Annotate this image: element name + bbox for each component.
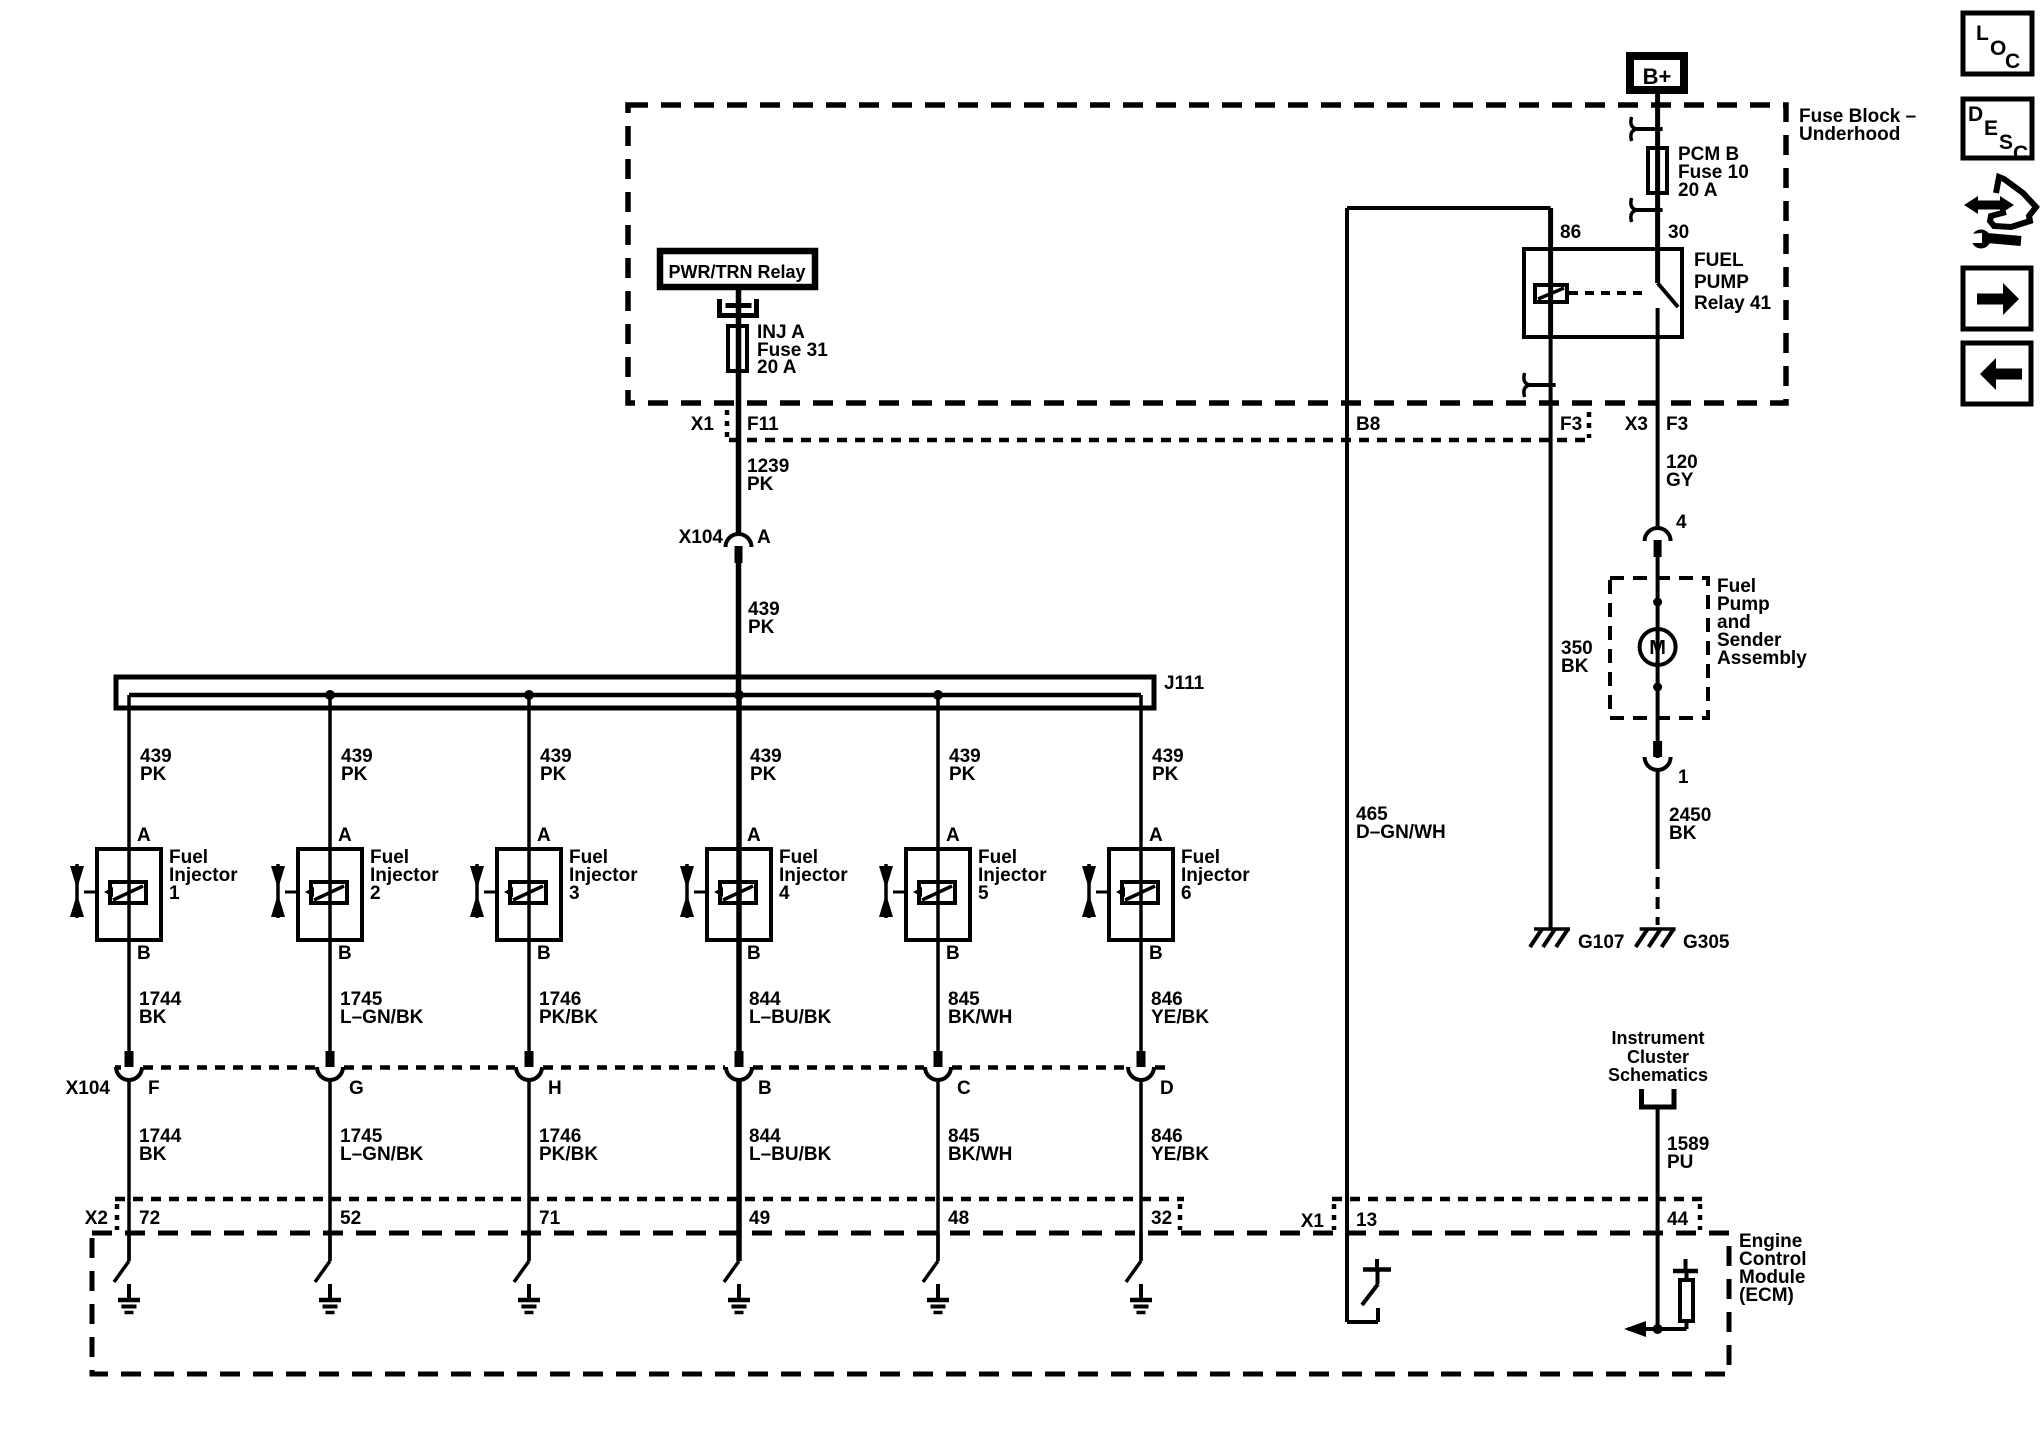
svg-text:6: 6: [1181, 883, 1192, 904]
svg-text:D: D: [1968, 103, 1983, 126]
svg-text:(ECM): (ECM): [1739, 1285, 1794, 1306]
svg-text:B: B: [338, 943, 352, 964]
svg-text:PU: PU: [1667, 1152, 1693, 1173]
svg-text:Instrument: Instrument: [1611, 1028, 1704, 1048]
svg-text:PK: PK: [540, 764, 567, 785]
svg-text:71: 71: [539, 1208, 561, 1229]
svg-text:X3: X3: [1625, 414, 1648, 435]
svg-text:O: O: [1990, 37, 2006, 60]
svg-text:B: B: [137, 943, 151, 964]
svg-text:13: 13: [1356, 1210, 1377, 1231]
svg-text:Schematics: Schematics: [1608, 1065, 1708, 1085]
svg-text:B: B: [946, 943, 960, 964]
svg-text:A: A: [137, 825, 151, 846]
svg-text:3: 3: [569, 883, 580, 904]
svg-text:X1: X1: [691, 414, 715, 435]
svg-text:L–GN/BK: L–GN/BK: [340, 1144, 424, 1165]
svg-text:S: S: [1999, 131, 2013, 154]
svg-text:G107: G107: [1578, 932, 1624, 953]
svg-text:F: F: [148, 1078, 160, 1099]
svg-text:C: C: [2013, 142, 2028, 165]
svg-text:B: B: [1149, 943, 1163, 964]
svg-text:BK: BK: [1669, 823, 1697, 844]
svg-text:52: 52: [340, 1208, 361, 1229]
svg-text:FUEL: FUEL: [1694, 250, 1744, 271]
svg-text:PK: PK: [341, 764, 368, 785]
svg-text:C: C: [957, 1078, 971, 1099]
svg-text:4: 4: [1676, 512, 1687, 533]
svg-text:X104: X104: [679, 527, 724, 548]
svg-text:Underhood: Underhood: [1799, 124, 1900, 145]
svg-text:D: D: [1160, 1078, 1174, 1099]
svg-text:PK/BK: PK/BK: [539, 1007, 598, 1028]
svg-text:B: B: [537, 943, 551, 964]
svg-text:GY: GY: [1666, 470, 1694, 491]
svg-text:H: H: [548, 1078, 562, 1099]
svg-text:72: 72: [139, 1208, 160, 1229]
svg-text:PK: PK: [140, 764, 167, 785]
svg-text:G305: G305: [1683, 932, 1730, 953]
svg-text:YE/BK: YE/BK: [1151, 1144, 1209, 1165]
svg-text:D–GN/WH: D–GN/WH: [1356, 822, 1446, 843]
svg-text:A: A: [946, 825, 960, 846]
svg-text:PK: PK: [748, 617, 775, 638]
svg-text:PK: PK: [750, 764, 777, 785]
svg-text:BK/WH: BK/WH: [948, 1144, 1012, 1165]
svg-text:B: B: [747, 943, 761, 964]
svg-text:X104: X104: [66, 1078, 111, 1099]
svg-text:PK: PK: [949, 764, 976, 785]
svg-text:E: E: [1984, 117, 1998, 140]
svg-text:1: 1: [169, 883, 180, 904]
svg-text:X2: X2: [85, 1208, 108, 1229]
svg-text:F3: F3: [1560, 414, 1582, 435]
svg-text:B+: B+: [1643, 64, 1672, 89]
svg-text:32: 32: [1151, 1208, 1172, 1229]
svg-text:A: A: [537, 825, 551, 846]
svg-text:49: 49: [749, 1208, 770, 1229]
svg-text:PK: PK: [747, 474, 774, 495]
svg-text:20 A: 20 A: [757, 357, 797, 378]
svg-text:44: 44: [1667, 1209, 1689, 1230]
svg-text:BK: BK: [139, 1144, 167, 1165]
svg-text:5: 5: [978, 883, 989, 904]
svg-text:30: 30: [1668, 222, 1689, 243]
svg-text:Assembly: Assembly: [1717, 648, 1807, 669]
svg-text:M: M: [1649, 637, 1666, 659]
svg-text:A: A: [747, 825, 761, 846]
svg-text:A: A: [338, 825, 352, 846]
svg-text:L–BU/BK: L–BU/BK: [749, 1007, 832, 1028]
svg-text:L–BU/BK: L–BU/BK: [749, 1144, 832, 1165]
svg-text:L: L: [1976, 22, 1989, 45]
svg-text:J111: J111: [1164, 673, 1205, 694]
svg-text:B8: B8: [1356, 414, 1380, 435]
svg-text:BK: BK: [1561, 656, 1589, 677]
svg-text:C: C: [2005, 50, 2020, 73]
svg-text:YE/BK: YE/BK: [1151, 1007, 1209, 1028]
svg-text:X1: X1: [1301, 1211, 1325, 1232]
svg-text:4: 4: [779, 883, 790, 904]
svg-text:20 A: 20 A: [1678, 180, 1718, 201]
svg-text:48: 48: [948, 1208, 969, 1229]
svg-text:L–GN/BK: L–GN/BK: [340, 1007, 424, 1028]
svg-text:BK: BK: [139, 1007, 167, 1028]
svg-text:B: B: [758, 1078, 772, 1099]
svg-text:1: 1: [1678, 767, 1689, 788]
svg-text:A: A: [757, 527, 771, 548]
svg-text:Cluster: Cluster: [1627, 1047, 1689, 1067]
svg-text:PK/BK: PK/BK: [539, 1144, 598, 1165]
svg-text:PK: PK: [1152, 764, 1179, 785]
svg-text:Relay 41: Relay 41: [1694, 293, 1772, 314]
svg-text:PWR/TRN Relay: PWR/TRN Relay: [668, 262, 805, 282]
svg-text:PUMP: PUMP: [1694, 272, 1749, 293]
svg-text:F11: F11: [747, 414, 779, 435]
svg-text:F3: F3: [1666, 414, 1688, 435]
svg-text:BK/WH: BK/WH: [948, 1007, 1012, 1028]
svg-text:G: G: [349, 1078, 364, 1099]
svg-text:A: A: [1149, 825, 1163, 846]
svg-text:2: 2: [370, 883, 381, 904]
svg-text:86: 86: [1560, 222, 1581, 243]
